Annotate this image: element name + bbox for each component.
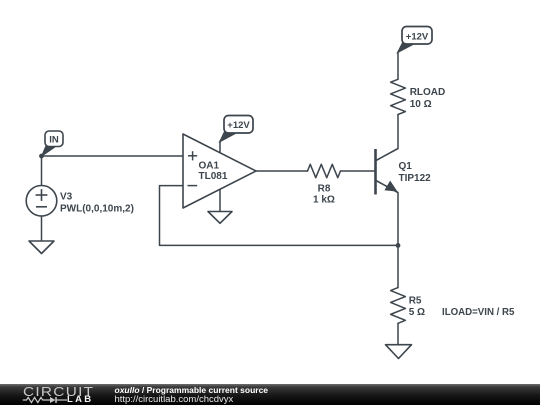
svg-text:1 kΩ: 1 kΩ [313, 195, 335, 206]
svg-text:RLOAD: RLOAD [410, 87, 446, 98]
footer bar [0, 384, 540, 405]
op-amp noninverting plus symbol [188, 151, 197, 160]
node IN flag leader [42, 147, 54, 157]
svg-text:V3: V3 [60, 192, 73, 203]
svg-text:5 Ω: 5 Ω [409, 307, 425, 318]
transistor Q1 emitter arrow [385, 182, 396, 191]
wire Q1 collector to RLOAD [397, 115, 399, 149]
op-amp OA1 triangle [183, 134, 256, 208]
wire IN node to V3 positive terminal [41, 156, 43, 186]
CircuitLab logo schematic glyph (resistor + diode) [22, 395, 68, 405]
footer url [115, 395, 234, 405]
svg-text:PWL(0,0,10m,2): PWL(0,0,10m,2) [60, 203, 134, 214]
resistor R5 [391, 288, 406, 324]
wire R5 to ground [397, 323, 399, 344]
svg-text:OA1: OA1 [199, 161, 220, 172]
ground below R5 [386, 345, 412, 359]
ground below V3 [29, 241, 54, 254]
footer title [115, 385, 269, 395]
svg-text:+12V: +12V [227, 120, 250, 131]
+12V power flag box at RLOAD [402, 27, 432, 45]
wire RLOAD to +12V [397, 52, 399, 79]
svg-text:10 Ω: 10 Ω [410, 99, 432, 110]
wire op-amp inverting input feedback to R5 node [160, 186, 399, 246]
voltage source V3 [26, 186, 57, 217]
ground below op-amp [208, 212, 232, 224]
resistor R8 [308, 164, 341, 177]
+12V power flag leader at op-amp [220, 132, 236, 143]
svg-text:TIP122: TIP122 [399, 173, 432, 184]
wire Q1 emitter to R5 node [397, 193, 399, 246]
CircuitLab logo LAB [67, 396, 93, 404]
+12V power flag leader at RLOAD [397, 43, 414, 53]
resistor RLOAD [391, 79, 406, 114]
wire IN node to op-amp noninverting input [42, 155, 184, 157]
wire op-amp ground pin stub [219, 189, 221, 211]
transistor Q1 collector lead [376, 149, 398, 161]
wire R5 node to R5 [397, 245, 399, 287]
node IN junction dot [39, 154, 44, 159]
svg-text:ILOAD=VIN / R5: ILOAD=VIN / R5 [442, 307, 515, 318]
op-amp inverting minus symbol [188, 185, 198, 187]
svg-text:R5: R5 [409, 295, 422, 306]
CircuitLab logo CIRCUIT [23, 386, 94, 397]
svg-text:IN: IN [49, 135, 59, 146]
svg-text:+12V: +12V [406, 31, 429, 42]
wire op-amp power pin stub [219, 141, 221, 153]
wire V3 negative terminal to ground [41, 216, 43, 241]
svg-text:R8: R8 [318, 183, 331, 194]
transistor Q1 emitter lead [376, 181, 398, 193]
node IN flag box [45, 131, 63, 147]
node dot at Q1 emitter / R5 / feedback junction [396, 243, 401, 248]
wire R8 to Q1 base [341, 170, 376, 172]
svg-text:TL081: TL081 [199, 171, 228, 182]
+12V power flag box at op-amp [224, 116, 253, 134]
wire op-amp output to R8 [256, 170, 308, 172]
svg-text:Q1: Q1 [399, 161, 413, 172]
transistor Q1 base bar [374, 149, 377, 195]
